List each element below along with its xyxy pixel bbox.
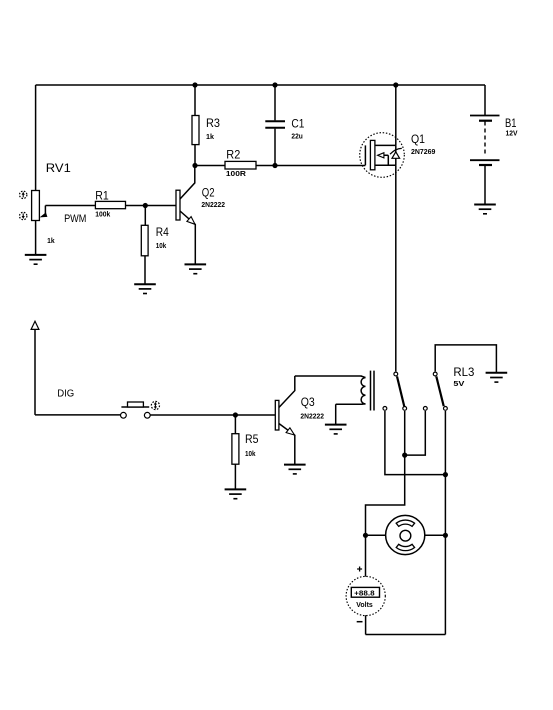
svg-text:2N7269: 2N7269 [411,147,435,156]
svg-text:5V: 5V [453,379,464,388]
svg-text:RV1: RV1 [46,161,71,175]
svg-text:Volts: Volts [356,600,373,609]
svg-text:PWM: PWM [64,213,86,225]
svg-text:RL3: RL3 [453,365,474,379]
svg-text:1k: 1k [47,236,55,245]
svg-text:+88.8: +88.8 [354,589,375,598]
svg-text:R4: R4 [156,225,169,239]
svg-text:R3: R3 [206,116,220,130]
svg-text:10k: 10k [156,241,167,250]
svg-text:12V: 12V [506,128,518,137]
svg-text:100k: 100k [95,209,111,218]
svg-text:10k: 10k [245,449,256,458]
svg-text:22u: 22u [291,131,303,140]
svg-text:100R: 100R [226,169,247,178]
svg-text:DIG: DIG [57,388,74,399]
svg-text:2N2222: 2N2222 [300,412,324,421]
svg-text:C1: C1 [291,116,304,130]
svg-text:2N2222: 2N2222 [201,200,225,209]
svg-text:Q1: Q1 [411,132,425,146]
svg-text:Q2: Q2 [202,186,215,200]
svg-text:Q3: Q3 [301,395,315,409]
svg-text:1k: 1k [206,132,215,141]
svg-text:R1: R1 [95,188,109,202]
svg-text:R5: R5 [245,432,259,446]
svg-text:R2: R2 [226,148,240,162]
